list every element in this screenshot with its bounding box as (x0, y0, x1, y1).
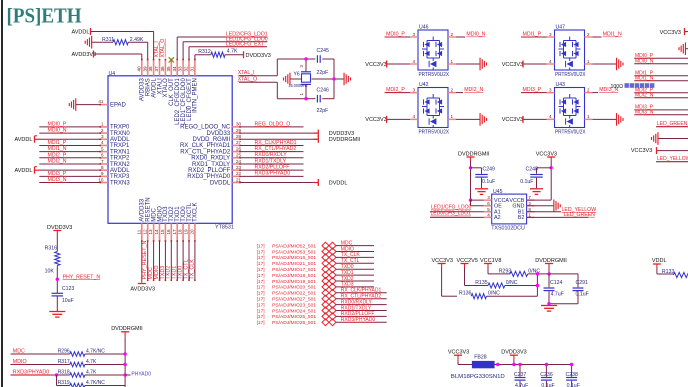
wire net MDI0_P to U46 pin 3 (385, 32, 418, 37)
svg-text:0.1uF: 0.1uF (541, 383, 554, 387)
svg-text:4: 4 (549, 59, 552, 64)
capacitor C246 (306, 88, 334, 115)
svg-text:TRXN0: TRXN0 (110, 131, 130, 137)
svg-text:[17]: [17] (257, 243, 265, 249)
svg-text:LED1/CFG_LDO0: LED1/CFG_LDO0 (431, 205, 472, 211)
svg-text:7: 7 (101, 159, 104, 164)
power DVDDRGMII flag right (314, 136, 361, 143)
wire crystal to right junction (312, 78, 345, 80)
wire DVDD3V3 rail (494, 364, 571, 366)
node MDI1_P label (48, 140, 67, 146)
wire net TXD2 stub (336, 280, 374, 282)
node MDI0_N label (466, 32, 485, 38)
node LED1/CFG_LDO0 label (226, 36, 268, 42)
svg-text:1: 1 (299, 93, 304, 96)
svg-text:4.7K: 4.7K (86, 369, 97, 375)
svg-text:27: 27 (236, 140, 242, 145)
svg-text:R318: R318 (58, 369, 70, 375)
svg-text:REGO_LDOO_NC: REGO_LDOO_NC (180, 125, 231, 131)
node TX_CLK label (341, 252, 361, 258)
off-page connector PS MIO20 TXD3 (257, 284, 336, 291)
svg-text:LED_GREEN: LED_GREEN (657, 121, 688, 127)
svg-text:R136: R136 (459, 291, 472, 297)
power VCC1V8 flag (480, 258, 501, 268)
wire net RXD3/PHYAD0 (240, 175, 304, 177)
svg-text:RX_CTL_PHYAD2: RX_CTL_PHYAD2 (180, 149, 231, 155)
off-page connector PS MIO27 RX_CTL/PHYAD2 (257, 295, 336, 302)
svg-text:MDI3_P: MDI3_P (523, 87, 542, 93)
off-page connector PS MIO19 TXD2 (257, 278, 336, 285)
svg-text:6: 6 (101, 153, 104, 158)
wire net MDI2_N to pin 7 (39, 163, 100, 165)
svg-text:36: 36 (160, 66, 165, 72)
node MDI3_P label (48, 171, 67, 177)
svg-text:0.1uF: 0.1uF (520, 179, 533, 185)
ground U47 (617, 58, 623, 71)
svg-text:MDI0_N: MDI0_N (635, 58, 654, 64)
svg-text:40: 40 (136, 66, 141, 72)
svg-text:MDI2_N: MDI2_N (464, 87, 483, 93)
wire net MDI3_P to pin 9 (39, 175, 100, 177)
svg-text:19: 19 (184, 229, 189, 235)
node MDI0_N label (48, 128, 67, 134)
node junction PHY_RESET_N (56, 278, 59, 281)
svg-text:RXD3_PHYAD0: RXD3_PHYAD0 (187, 174, 231, 180)
diode array U43 PRTR5V0U2X body (555, 82, 586, 135)
node RX_CLK/PHYAD1 label (341, 288, 382, 294)
title [PS]ETH (7, 4, 82, 28)
ground crystal left (284, 73, 302, 86)
pin 20 TXCLK (190, 202, 199, 241)
note 100ohm differential impedance (611, 83, 655, 90)
svg-text:32: 32 (184, 66, 189, 72)
node MDC rotated label (148, 267, 154, 279)
U45 pin stubs (484, 200, 535, 217)
svg-text:28: 28 (236, 134, 242, 139)
resistor R135 (475, 280, 518, 288)
wire DVDDRGMII down (548, 268, 550, 274)
wire net RXD1/TXDLY (240, 163, 304, 165)
power DVDDRGMII flag mux (535, 258, 567, 268)
svg-text:VCC3V3: VCC3V3 (365, 62, 386, 68)
capacitor C238 (566, 365, 580, 387)
svg-text:XTAL_O: XTAL_O (160, 39, 166, 58)
wire U47 pin 1 to ground (585, 59, 617, 64)
wire pin11 to AVDD3V3 (141, 241, 143, 283)
pin 5 TRXN1 (100, 146, 131, 155)
node junction DVDD3V3 filter (512, 363, 515, 366)
wire net TXD2 from pin 16 (171, 241, 173, 281)
resistor R319 (58, 380, 106, 387)
pin 40 AVDD33 (136, 59, 145, 101)
wire PHYAD0 stub (125, 374, 130, 376)
svg-text:A2: A2 (494, 215, 501, 221)
node TXD0 label (341, 264, 354, 270)
svg-text:MDI1_P: MDI1_P (523, 32, 542, 38)
pin 11 AVDD33 (136, 198, 145, 242)
svg-text:22pF: 22pF (317, 70, 329, 76)
ground U43 (617, 113, 623, 126)
ground EPAD (69, 98, 75, 111)
off-page connector PS MIO16 TX_CLK (257, 254, 336, 261)
node LED1/CFG_LDO0 label U45 (431, 205, 472, 211)
node junction C248 (550, 166, 553, 169)
node MDI2_N label (48, 159, 67, 165)
svg-text:DVDD33: DVDD33 (207, 131, 231, 137)
svg-text:RXD3/PHYAD0: RXD3/PHYAD0 (255, 171, 291, 177)
wire net MDI0_N to pin 2 (39, 132, 100, 134)
svg-text:RX_CLK_PHYAD1: RX_CLK_PHYAD1 (180, 143, 231, 149)
node MDI2_N label (464, 87, 483, 93)
svg-text:[17]: [17] (257, 279, 265, 285)
svg-text:[17]: [17] (257, 267, 265, 273)
svg-text:0.1uF: 0.1uF (567, 383, 580, 387)
svg-text:22pF: 22pF (317, 108, 329, 114)
wire pin21 to DVDDL (240, 182, 318, 184)
svg-text:MDIO: MDIO (13, 359, 27, 365)
off-page connector PS MIO24 RXD1/TXDLY (257, 307, 336, 314)
svg-text:34: 34 (172, 66, 177, 72)
svg-text:U4: U4 (109, 71, 116, 77)
no-connect X on CLK_OUT (169, 57, 174, 62)
wire EPAD to ground (76, 104, 101, 106)
wire INTN_PMEN R312 DVDD3V3 (195, 55, 243, 60)
node MDIO label (13, 359, 27, 365)
pin 8 AVDDL (100, 165, 131, 174)
svg-text:AVDD3V3: AVDD3V3 (130, 286, 155, 292)
wire net RXD3/PHYAD0 stub (336, 321, 387, 323)
pin 3 AVDDL (100, 134, 131, 143)
node junction C237 (518, 363, 521, 366)
svg-text:MDI0_P: MDI0_P (386, 32, 405, 38)
wire XTAL_I (239, 59, 306, 76)
node MDI0_P label (386, 32, 405, 38)
svg-text:1: 1 (101, 122, 104, 127)
svg-text:RXD1_TXDLY: RXD1_TXDLY (192, 162, 230, 168)
wire U42 pin 1 to ground (448, 114, 480, 119)
wire net RXD0/RXDLY stub (336, 304, 387, 306)
svg-text:26: 26 (236, 146, 242, 151)
pin 33 LED1_CFGLDO0 (178, 59, 187, 125)
svg-text:8: 8 (528, 207, 531, 212)
svg-text:C249: C249 (483, 167, 496, 173)
svg-text:4.7uF: 4.7uF (551, 292, 564, 298)
wire net RX_CLK/PHYAD1 (240, 144, 304, 146)
wire VCC3V3 top right (685, 31, 688, 33)
pin 30 REGO_LDOO_NC (180, 122, 241, 131)
wire net MDI1_N to RJ45 (634, 80, 688, 82)
svg-text:10K: 10K (45, 269, 55, 275)
svg-text:U43: U43 (556, 82, 566, 88)
svg-text:MDI3_P: MDI3_P (48, 171, 67, 177)
svg-text:4: 4 (412, 59, 415, 64)
node RX_CLK/PHYAD1 label (255, 140, 297, 146)
power DVDD3V3 flag filter (501, 350, 526, 360)
svg-text:MDI3_N: MDI3_N (48, 177, 67, 183)
wire net REG_OLDO_O (240, 126, 304, 128)
svg-text:14: 14 (154, 229, 159, 235)
svg-text:PHY_RESET_N: PHY_RESET_N (63, 274, 101, 280)
svg-text:[17]: [17] (257, 314, 265, 320)
pin 2 TRXN0 (100, 128, 131, 137)
svg-text:RX_CLK/PHYAD1: RX_CLK/PHYAD1 (255, 140, 297, 146)
svg-text:3: 3 (299, 65, 304, 68)
svg-text:MDI1_N: MDI1_N (635, 75, 654, 81)
node RXD0/RXDLY label (255, 152, 288, 158)
node RXD1/TXDLY label (255, 158, 287, 164)
power VCC3V3 flag U45 (536, 151, 557, 161)
svg-text:R316: R316 (45, 246, 58, 252)
wire VCC2V5 to R135 (465, 268, 538, 286)
wire LED1/CFG_LDO0 (183, 42, 267, 60)
off-page connector PS MIO18 TXD1 (257, 272, 336, 279)
ground U46 (480, 58, 486, 71)
node MDI3_N label (599, 87, 618, 93)
power VCC3V3 flag filter (448, 350, 469, 360)
node XTAL_O rotated label (160, 39, 166, 58)
pin 14 MDIO (154, 206, 163, 242)
wire net LED1/CFG_LDO0 to A1 (430, 211, 492, 213)
power AVDD3V3 flag top (72, 51, 97, 58)
node TXD1 label (341, 270, 354, 276)
ground C123 (49, 312, 65, 318)
svg-text:R319: R319 (58, 380, 70, 386)
power AVDDL flag top (72, 28, 91, 36)
node MDI2_P label right (635, 87, 654, 93)
svg-text:1: 1 (451, 59, 454, 64)
node MDI1_P label right (635, 70, 654, 76)
wire net TX_CLK stub (336, 256, 374, 258)
wire VCC3V3 to U42 pin 4 (387, 114, 418, 119)
svg-text:TRXN3: TRXN3 (110, 180, 130, 186)
svg-text:PS/ADJ/MIO18_501: PS/ADJ/MIO18_501 (272, 273, 316, 279)
wire net MDI1_P to U47 pin 3 (521, 32, 555, 37)
svg-text:25: 25 (236, 153, 242, 158)
ground R311 (85, 36, 91, 49)
crystal Y6 (289, 59, 312, 99)
svg-text:3: 3 (101, 134, 104, 139)
svg-text:PS/ADJ/MIO25_501: PS/ADJ/MIO25_501 (272, 314, 316, 320)
node RXD2/PLLOFF label (341, 311, 375, 317)
svg-text:[17]: [17] (257, 291, 265, 297)
svg-text:30: 30 (236, 122, 242, 127)
svg-text:LED0/CFG_EXT: LED0/CFG_EXT (226, 41, 265, 47)
pin 38 AVDDL (148, 59, 157, 98)
wire net TXD3 from pin 15 (165, 241, 167, 281)
node TXD3 label (341, 282, 354, 288)
svg-text:C236: C236 (540, 372, 553, 378)
resistor R312 (198, 48, 238, 57)
svg-text:PS/ADJ/MIO17_501: PS/ADJ/MIO17_501 (272, 267, 316, 273)
resistor R296 (58, 348, 106, 356)
svg-text:PRTR5V0U2X: PRTR5V0U2X (555, 72, 586, 78)
wire net MDC stub (336, 245, 374, 247)
svg-text:PS/ADJ/MIO21_501: PS/ADJ/MIO21_501 (272, 261, 316, 267)
svg-text:R293: R293 (499, 268, 512, 274)
node MDI0_P label (48, 122, 67, 128)
svg-text:R133: R133 (662, 269, 675, 275)
svg-text:TXS0102DCU: TXS0102DCU (491, 225, 525, 231)
svg-text:VCC3V3: VCC3V3 (631, 148, 652, 154)
svg-text:AVDDL: AVDDL (110, 168, 130, 174)
svg-text:MDI2_N: MDI2_N (635, 92, 654, 98)
svg-text:PS/ADJ/MIO16_501: PS/ADJ/MIO16_501 (272, 255, 316, 261)
node MDC label (341, 240, 353, 246)
svg-text:DVDDRGMII: DVDDRGMII (329, 137, 361, 143)
power VCC3V3 flag U46 (365, 61, 386, 68)
power VCC3V3 flag U47 (502, 61, 523, 68)
svg-text:VDDL: VDDL (652, 258, 667, 264)
capacitor C123 (52, 286, 75, 304)
diode array U46 PRTR5V0U2X body (418, 25, 449, 78)
node junction VCCA (469, 198, 472, 201)
pin 25 RXD0_RXDLY (191, 153, 241, 162)
node junction R296 (123, 352, 126, 355)
svg-text:[PS]ETH: [PS]ETH (7, 4, 82, 28)
svg-text:[17]: [17] (257, 285, 265, 291)
svg-text:2: 2 (451, 32, 454, 37)
power VCC2V5 flag (457, 258, 478, 268)
pin 1 TRXP0 (100, 122, 131, 131)
wire net MDI2_P to RJ45 (634, 92, 688, 94)
node PHYAD0 label (131, 372, 151, 378)
power DVDDL flag (314, 179, 348, 186)
svg-text:RXD1/TXDLY: RXD1/TXDLY (255, 158, 287, 164)
ground mux caps (541, 306, 557, 312)
svg-text:4: 4 (487, 213, 490, 218)
svg-text:2: 2 (587, 32, 590, 37)
pin 22 RXD3_PHYAD0 (187, 171, 241, 180)
node junction R317 (123, 363, 126, 366)
wire crystal right vertical (333, 59, 335, 99)
node RXD3/PHYAD0 label (13, 369, 49, 375)
node TX_CTL label (341, 258, 360, 264)
svg-text:DVDD_RGMII: DVDD_RGMII (193, 137, 231, 143)
resistor R316 (45, 246, 60, 275)
svg-text:1: 1 (451, 114, 454, 119)
wire net MDI0_P to pin 1 (39, 126, 100, 128)
svg-text:4: 4 (101, 140, 104, 145)
svg-text:1: 1 (587, 59, 590, 64)
svg-text:MDI2_P: MDI2_P (48, 152, 67, 158)
off-page connector PS MIO17 TXD0 (257, 266, 336, 273)
svg-text:U46: U46 (419, 25, 429, 31)
svg-text:XTAL_I: XTAL_I (238, 70, 255, 76)
svg-text:R312: R312 (198, 49, 211, 55)
pin 10 TRXN3 (98, 177, 130, 186)
svg-text:[17]: [17] (257, 320, 265, 326)
wire AVDD3V3 to pin 40 (94, 54, 142, 60)
YT8531 value label (215, 225, 234, 231)
node TXD2 rotated label (166, 266, 172, 280)
node junction crystal right (332, 77, 335, 80)
wire net MDI1_N from U47 pin 2 (585, 32, 602, 37)
svg-text:RXD2_PLLOFF: RXD2_PLLOFF (188, 168, 230, 174)
pin 6 TRXP2 (100, 153, 131, 162)
off-page connector PS MIO52 MDC (257, 242, 336, 249)
wire VCC3V3 to FB28 (458, 359, 472, 364)
node XTAL_I label (238, 70, 255, 76)
svg-text:0/NC: 0/NC (488, 291, 500, 297)
svg-text:[17]: [17] (257, 302, 265, 308)
node XTAL_O label (238, 77, 258, 83)
off-page connector PS MIO26 RXD3/PHYAD0 (257, 319, 336, 326)
wire U46 pin 1 to ground (448, 59, 480, 64)
wire U45 GND pin (527, 205, 554, 207)
capacitor C124 (544, 274, 564, 304)
svg-text:TRXP1: TRXP1 (110, 143, 130, 149)
wire net RX_CTL/PHYAD2 stub (336, 298, 387, 300)
svg-text:REG_OLDO_O: REG_OLDO_O (255, 121, 291, 127)
svg-text:TXCLK: TXCLK (193, 202, 199, 221)
svg-text:Y6: Y6 (294, 72, 300, 78)
svg-text:VCC3V3: VCC3V3 (660, 30, 681, 36)
svg-text:PS/ADJ/MIO27_501: PS/ADJ/MIO27_501 (272, 297, 316, 303)
svg-text:10: 10 (98, 177, 104, 182)
svg-text:MDI1_P: MDI1_P (48, 140, 67, 146)
resistor R293 (499, 268, 541, 276)
resistor R311 (102, 37, 144, 45)
capacitor C249 (471, 167, 496, 188)
power AVDDL flag (15, 136, 101, 143)
svg-text:AVDDL: AVDDL (110, 137, 130, 143)
wire net MDI0_P to RJ45 (634, 57, 688, 59)
svg-text:9: 9 (101, 171, 104, 176)
svg-text:17: 17 (172, 229, 177, 235)
pin 28 DVDD_RGMII (193, 134, 242, 143)
svg-text:2: 2 (587, 87, 590, 92)
node MDI0_P label right (635, 53, 654, 59)
pin 26 RX_CTL_PHYAD2 (180, 146, 241, 155)
svg-text:41: 41 (98, 99, 104, 104)
node junction crystal top (304, 57, 307, 60)
node MDI1_N label (48, 146, 67, 152)
node junction R135 bus (536, 284, 539, 287)
node junction R318 (123, 373, 126, 376)
node RXD1/TXDLY label (341, 305, 372, 311)
wire DVDD3V3 down (513, 359, 515, 364)
svg-text:LED_GREEN: LED_GREEN (564, 212, 596, 218)
svg-text:31: 31 (190, 66, 195, 72)
svg-text:AVDD3V3: AVDD3V3 (72, 52, 97, 58)
node RXD3/PHYAD0 label (341, 317, 376, 323)
svg-text:R317: R317 (58, 359, 70, 365)
node PHY_RESET_N rotated label (142, 240, 148, 279)
node junction C236 (545, 363, 548, 366)
svg-text:15: 15 (160, 229, 165, 235)
wire net TX_CTL stub (336, 262, 374, 264)
wire net RXD0/RXDLY (240, 157, 304, 159)
node MDI3_P label right (635, 105, 654, 111)
power AVDD3V3 flag bottom (130, 284, 155, 293)
node MDI3_P label (523, 87, 542, 93)
svg-text:MDC: MDC (13, 348, 25, 354)
pin 27 RX_CLK_PHYAD1 (180, 140, 242, 149)
svg-text:PRTR5V0U2X: PRTR5V0U2X (419, 72, 450, 78)
node MDI1_N label (603, 32, 622, 38)
svg-text:DVDD3V3: DVDD3V3 (329, 131, 354, 137)
pin 32 LED0_CFGEXT (184, 59, 193, 121)
power VDDL flag (652, 258, 667, 268)
ground RJ45 shield (652, 132, 688, 145)
node LED_GREEN label (657, 121, 688, 127)
svg-text:12: 12 (142, 229, 147, 235)
svg-text:7: 7 (528, 195, 531, 200)
pin 15 TXD3 (160, 206, 169, 242)
wire net MDI2_N from U42 pin 2 (448, 87, 463, 92)
pin 41 EPAD (98, 99, 126, 108)
svg-text:MDI3_N: MDI3_N (635, 109, 654, 115)
